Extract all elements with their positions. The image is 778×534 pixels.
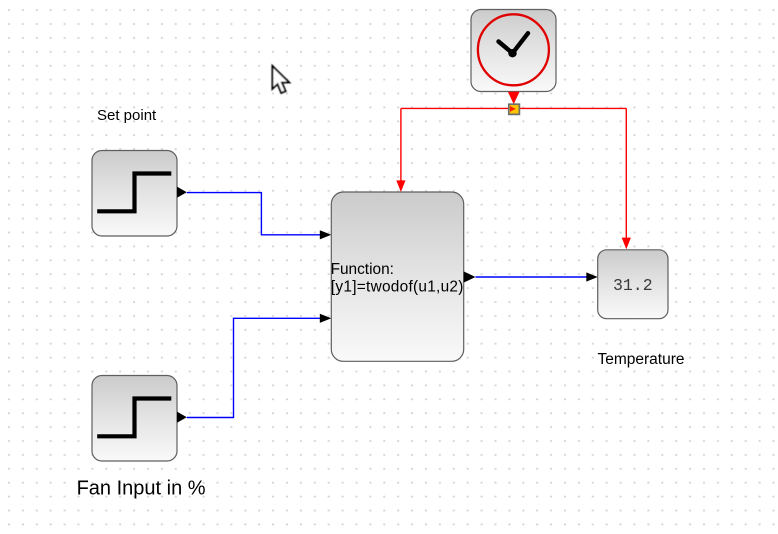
red wire left branch	[400, 108, 402, 181]
block FUNCTION (expression block)	[331, 192, 463, 361]
block CLOCK (SampleCLK)	[471, 10, 556, 92]
wire W1 arrowhead	[320, 230, 332, 239]
clock link split point (gold square)	[509, 104, 520, 114]
svg-text:Set point: Set point	[97, 107, 157, 124]
wire W3 arrowhead	[586, 272, 597, 281]
red wire right branch	[625, 108, 627, 238]
CLOCK center dot	[508, 49, 516, 57]
block DISPLAY (AFFICH_m)	[598, 250, 668, 319]
wire W2 (step2 -> function in2)	[187, 318, 321, 417]
mouse cursor	[272, 66, 289, 93]
wire W1 (step1 -> function in1)	[187, 193, 321, 235]
block STEP2 (Fan input source)	[92, 376, 177, 462]
wire W3 (function -> display)	[476, 276, 588, 278]
FUNCTION output port	[464, 271, 476, 282]
STEP1 step glyph	[97, 174, 171, 212]
svg-text:Fan Input in %: Fan Input in %	[77, 478, 206, 500]
svg-text:31.2: 31.2	[613, 276, 653, 295]
wire W2 arrowhead	[320, 314, 332, 323]
CLOCK face circle	[478, 14, 549, 85]
block STEP1 (Set point source)	[92, 151, 177, 237]
red right arrowhead into display	[622, 238, 631, 250]
STEP2 step glyph	[97, 399, 171, 437]
red clock wire horizontal	[401, 107, 626, 109]
CLOCK hands	[499, 33, 529, 53]
red clock wire arrowhead (clock -> split)	[508, 92, 520, 104]
STEP2 output port	[177, 412, 187, 423]
svg-text:[y1]=twodof(u1,u2): [y1]=twodof(u1,u2)	[331, 278, 464, 295]
split point inner red arrowhead	[510, 106, 516, 112]
svg-text:Function:: Function:	[331, 261, 394, 278]
STEP1 output port	[177, 187, 187, 198]
red left arrowhead into function	[396, 180, 405, 192]
svg-text:Temperature: Temperature	[598, 351, 685, 368]
